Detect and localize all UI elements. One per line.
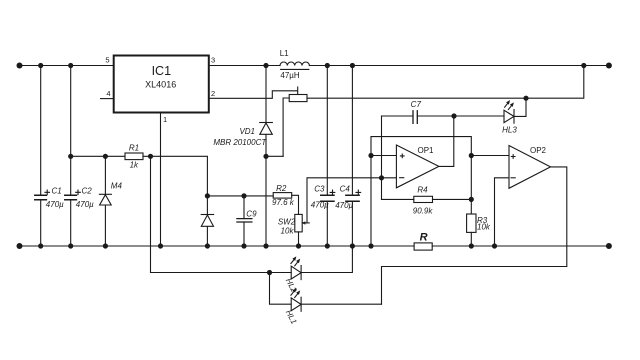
node OP1 plus junction <box>368 153 373 158</box>
resistor R shunt <box>414 243 432 250</box>
capacitor C3 <box>321 66 334 247</box>
node R1 left C2 junction <box>68 154 73 159</box>
svg-text:C4: C4 <box>340 185 351 194</box>
svg-text:47µH: 47µH <box>280 71 300 80</box>
wire sense left drop <box>283 98 289 156</box>
svg-text:M4: M4 <box>111 182 123 191</box>
label C3 + <box>330 190 335 195</box>
svg-text:2: 2 <box>211 89 215 98</box>
capacitor C7 <box>382 111 455 124</box>
led HL2 <box>291 246 353 280</box>
node C9 bottom junction <box>241 243 246 248</box>
svg-text:OP2: OP2 <box>530 146 547 155</box>
node OP2 plus junction <box>469 153 474 158</box>
node OP1 plus bottom junction <box>368 243 373 248</box>
svg-text:3: 3 <box>211 56 215 65</box>
node sense drop junction <box>581 63 586 68</box>
node C1 bottom junction <box>38 243 43 248</box>
node C4 bottom junction <box>350 243 355 248</box>
wire VD1 anode row <box>266 155 283 157</box>
svg-text:1k: 1k <box>130 161 139 170</box>
svg-text:OP1: OP1 <box>417 146 434 155</box>
svg-text:L1: L1 <box>280 49 289 58</box>
svg-text:MBR 20100CT: MBR 20100CT <box>213 138 267 147</box>
node C3 bottom junction <box>325 243 330 248</box>
label C4 + <box>356 190 361 195</box>
node M4 top junction <box>103 154 108 159</box>
wire pin3 to L1 <box>209 65 280 67</box>
diode M4 <box>99 156 111 246</box>
node C1 top junction <box>38 63 43 68</box>
node R1 right junction <box>148 154 153 159</box>
wire R1 right row <box>143 156 207 196</box>
svg-text:470µ: 470µ <box>311 200 329 209</box>
svg-text:10k: 10k <box>281 226 295 235</box>
svg-text:90.9k: 90.9k <box>413 207 434 216</box>
resistor sense R top <box>289 95 307 102</box>
node R3 bottom junction <box>469 243 474 248</box>
led HL3 <box>504 98 526 123</box>
svg-text:SW2: SW2 <box>278 218 296 227</box>
wire bottom rail left <box>20 245 415 247</box>
led HL1 <box>291 289 382 312</box>
node C2 bottom junction <box>68 243 73 248</box>
wire sense right to rail <box>307 66 584 99</box>
node output+ terminal <box>606 63 612 69</box>
svg-text:C9: C9 <box>246 209 257 218</box>
svg-text:HL1: HL1 <box>284 308 299 325</box>
node M4 bottom junction <box>103 243 108 248</box>
label C2 + <box>76 190 81 195</box>
wire pin4 stub <box>101 98 114 100</box>
node SW2 bottom junction <box>296 243 301 248</box>
node VD1 anode junction <box>263 154 268 159</box>
diode D mid <box>201 196 213 246</box>
svg-text:C3: C3 <box>314 185 325 194</box>
svg-text:97.6 k: 97.6 k <box>272 198 295 207</box>
resistor R3 <box>467 214 476 246</box>
capacitor C1 <box>35 66 47 247</box>
node HL2 anode junction <box>267 270 272 275</box>
node C7 right junction <box>451 113 456 118</box>
wire top input rail <box>20 65 114 67</box>
svg-text:C2: C2 <box>82 187 93 196</box>
wire pin1 down <box>160 113 162 247</box>
capacitor C2 <box>65 66 77 247</box>
node OP1 minus junction <box>379 175 384 180</box>
op-amp OP2 <box>509 146 551 189</box>
svg-text:10k: 10k <box>477 223 491 232</box>
svg-text:IC1: IC1 <box>152 64 172 78</box>
wire HL1 feed <box>270 273 292 305</box>
inductor L1 <box>280 62 309 69</box>
wire SW2 wiper to OP1 minus <box>307 178 396 223</box>
wire OP2 output loop <box>382 167 567 304</box>
node gnd terminal right <box>606 243 612 249</box>
wire OP1 output up <box>439 116 454 166</box>
node OP2 minus bottom junction <box>492 243 497 248</box>
diode VD1 <box>260 66 273 247</box>
wire OP1 plus stub <box>371 155 396 157</box>
wire SW2 bottom <box>298 232 300 246</box>
svg-text:R1: R1 <box>129 144 139 153</box>
svg-text:1: 1 <box>163 115 167 124</box>
wire HL2 feed down <box>151 156 292 272</box>
wire pin2 step <box>209 87 298 98</box>
node C2 top junction <box>68 63 73 68</box>
potentiometer SW2 <box>295 214 309 232</box>
svg-text:R2: R2 <box>276 184 287 193</box>
node HL3 cathode junction <box>523 96 528 101</box>
svg-text:R4: R4 <box>417 186 428 195</box>
svg-text:HL2: HL2 <box>284 277 299 295</box>
node input+ terminal <box>17 63 23 69</box>
resistor R4 <box>382 196 472 202</box>
node VD1 top junction <box>263 63 268 68</box>
wire bottom rail right <box>432 245 609 247</box>
resistor R2 <box>273 193 292 199</box>
node C4 top junction <box>350 63 355 68</box>
wire C9 row <box>207 195 273 197</box>
wire OP2 minus to rail <box>495 178 510 246</box>
node R4 right junction <box>469 197 474 202</box>
node VD1 bottom junction <box>263 243 268 248</box>
wire C7 to HL3 <box>454 115 504 117</box>
svg-text:5: 5 <box>105 56 109 65</box>
wire output top rail <box>309 65 609 67</box>
wire R1 left <box>71 155 125 157</box>
node D mid top junction <box>205 193 210 198</box>
svg-text:C7: C7 <box>411 100 422 109</box>
capacitor C4 <box>346 66 359 247</box>
node pin1 bottom junction <box>158 243 163 248</box>
svg-text:470µ: 470µ <box>76 200 94 209</box>
svg-text:HL3: HL3 <box>502 126 517 135</box>
svg-text:XL4016: XL4016 <box>145 80 176 90</box>
wire OP1 plus net rectangle <box>371 137 471 246</box>
svg-text:R: R <box>420 232 428 244</box>
label C1 + <box>45 190 50 195</box>
node C3 top junction <box>325 63 330 68</box>
capacitor C9 <box>237 196 252 246</box>
wire C7 left down <box>381 116 383 199</box>
node gnd terminal left <box>17 243 23 249</box>
svg-text:470µ: 470µ <box>46 200 64 209</box>
node D mid bottom junction <box>205 243 210 248</box>
wire OP2 plus stub <box>471 155 509 157</box>
svg-text:C1: C1 <box>52 187 62 196</box>
op-amp OP1 <box>396 145 439 188</box>
svg-text:VD1: VD1 <box>239 127 255 136</box>
IC U1 IC1 XL4016 <box>114 56 209 113</box>
resistor R1 <box>125 153 143 160</box>
svg-text:4: 4 <box>106 89 110 98</box>
wire R2 to SW2 <box>292 195 299 214</box>
svg-text:470µ: 470µ <box>335 201 353 210</box>
node C9 top junction <box>241 193 246 198</box>
